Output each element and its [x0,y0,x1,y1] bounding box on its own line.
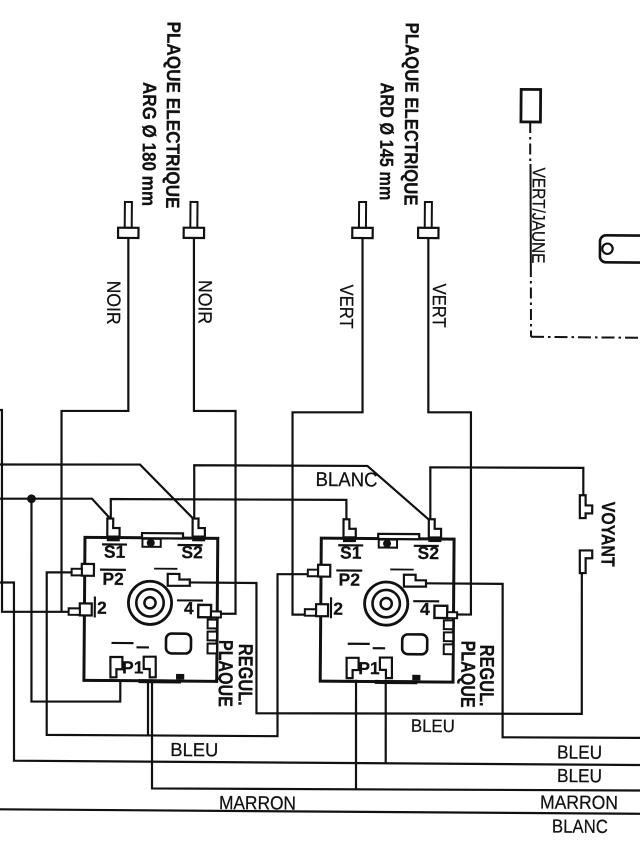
svg-text:PLAQUE ELECTRIQUE: PLAQUE ELECTRIQUE [161,21,183,208]
svg-text:4: 4 [184,598,194,618]
svg-text:S1: S1 [104,542,126,562]
svg-text:PLAQUE: PLAQUE [456,641,479,708]
svg-text:BLEU: BLEU [411,716,455,736]
svg-text:BLEU: BLEU [170,740,218,761]
svg-text:BLANC: BLANC [552,817,608,838]
svg-text:S1: S1 [340,543,362,563]
svg-text:ARG Ø 180 mm: ARG Ø 180 mm [137,82,159,206]
svg-text:P2: P2 [102,569,124,589]
svg-text:2: 2 [333,599,343,619]
svg-text:P1: P1 [122,657,144,677]
svg-text:MARRON: MARRON [540,792,618,814]
svg-text:S2: S2 [418,543,440,563]
svg-text:S2: S2 [181,542,203,562]
svg-text:ARD Ø 145 mm: ARD Ø 145 mm [375,82,397,200]
svg-text:PLAQUE: PLAQUE [214,640,237,707]
svg-text:BLEU: BLEU [557,742,602,763]
svg-text:BLEU: BLEU [557,766,602,787]
svg-text:PLAQUE ELECTRIQUE: PLAQUE ELECTRIQUE [399,22,421,205]
svg-text:P1: P1 [358,658,380,678]
svg-text:BLANC: BLANC [315,469,377,491]
svg-text:VERT: VERT [428,284,449,328]
svg-text:NOIR: NOIR [102,281,123,325]
svg-text:P2: P2 [339,570,361,590]
svg-text:NOIR: NOIR [193,280,214,324]
svg-text:VERT: VERT [335,285,356,329]
svg-text:MARRON: MARRON [219,793,296,815]
svg-text:VOYANT: VOYANT [596,502,617,567]
svg-text:4: 4 [420,599,430,619]
svg-text:2: 2 [97,598,107,618]
